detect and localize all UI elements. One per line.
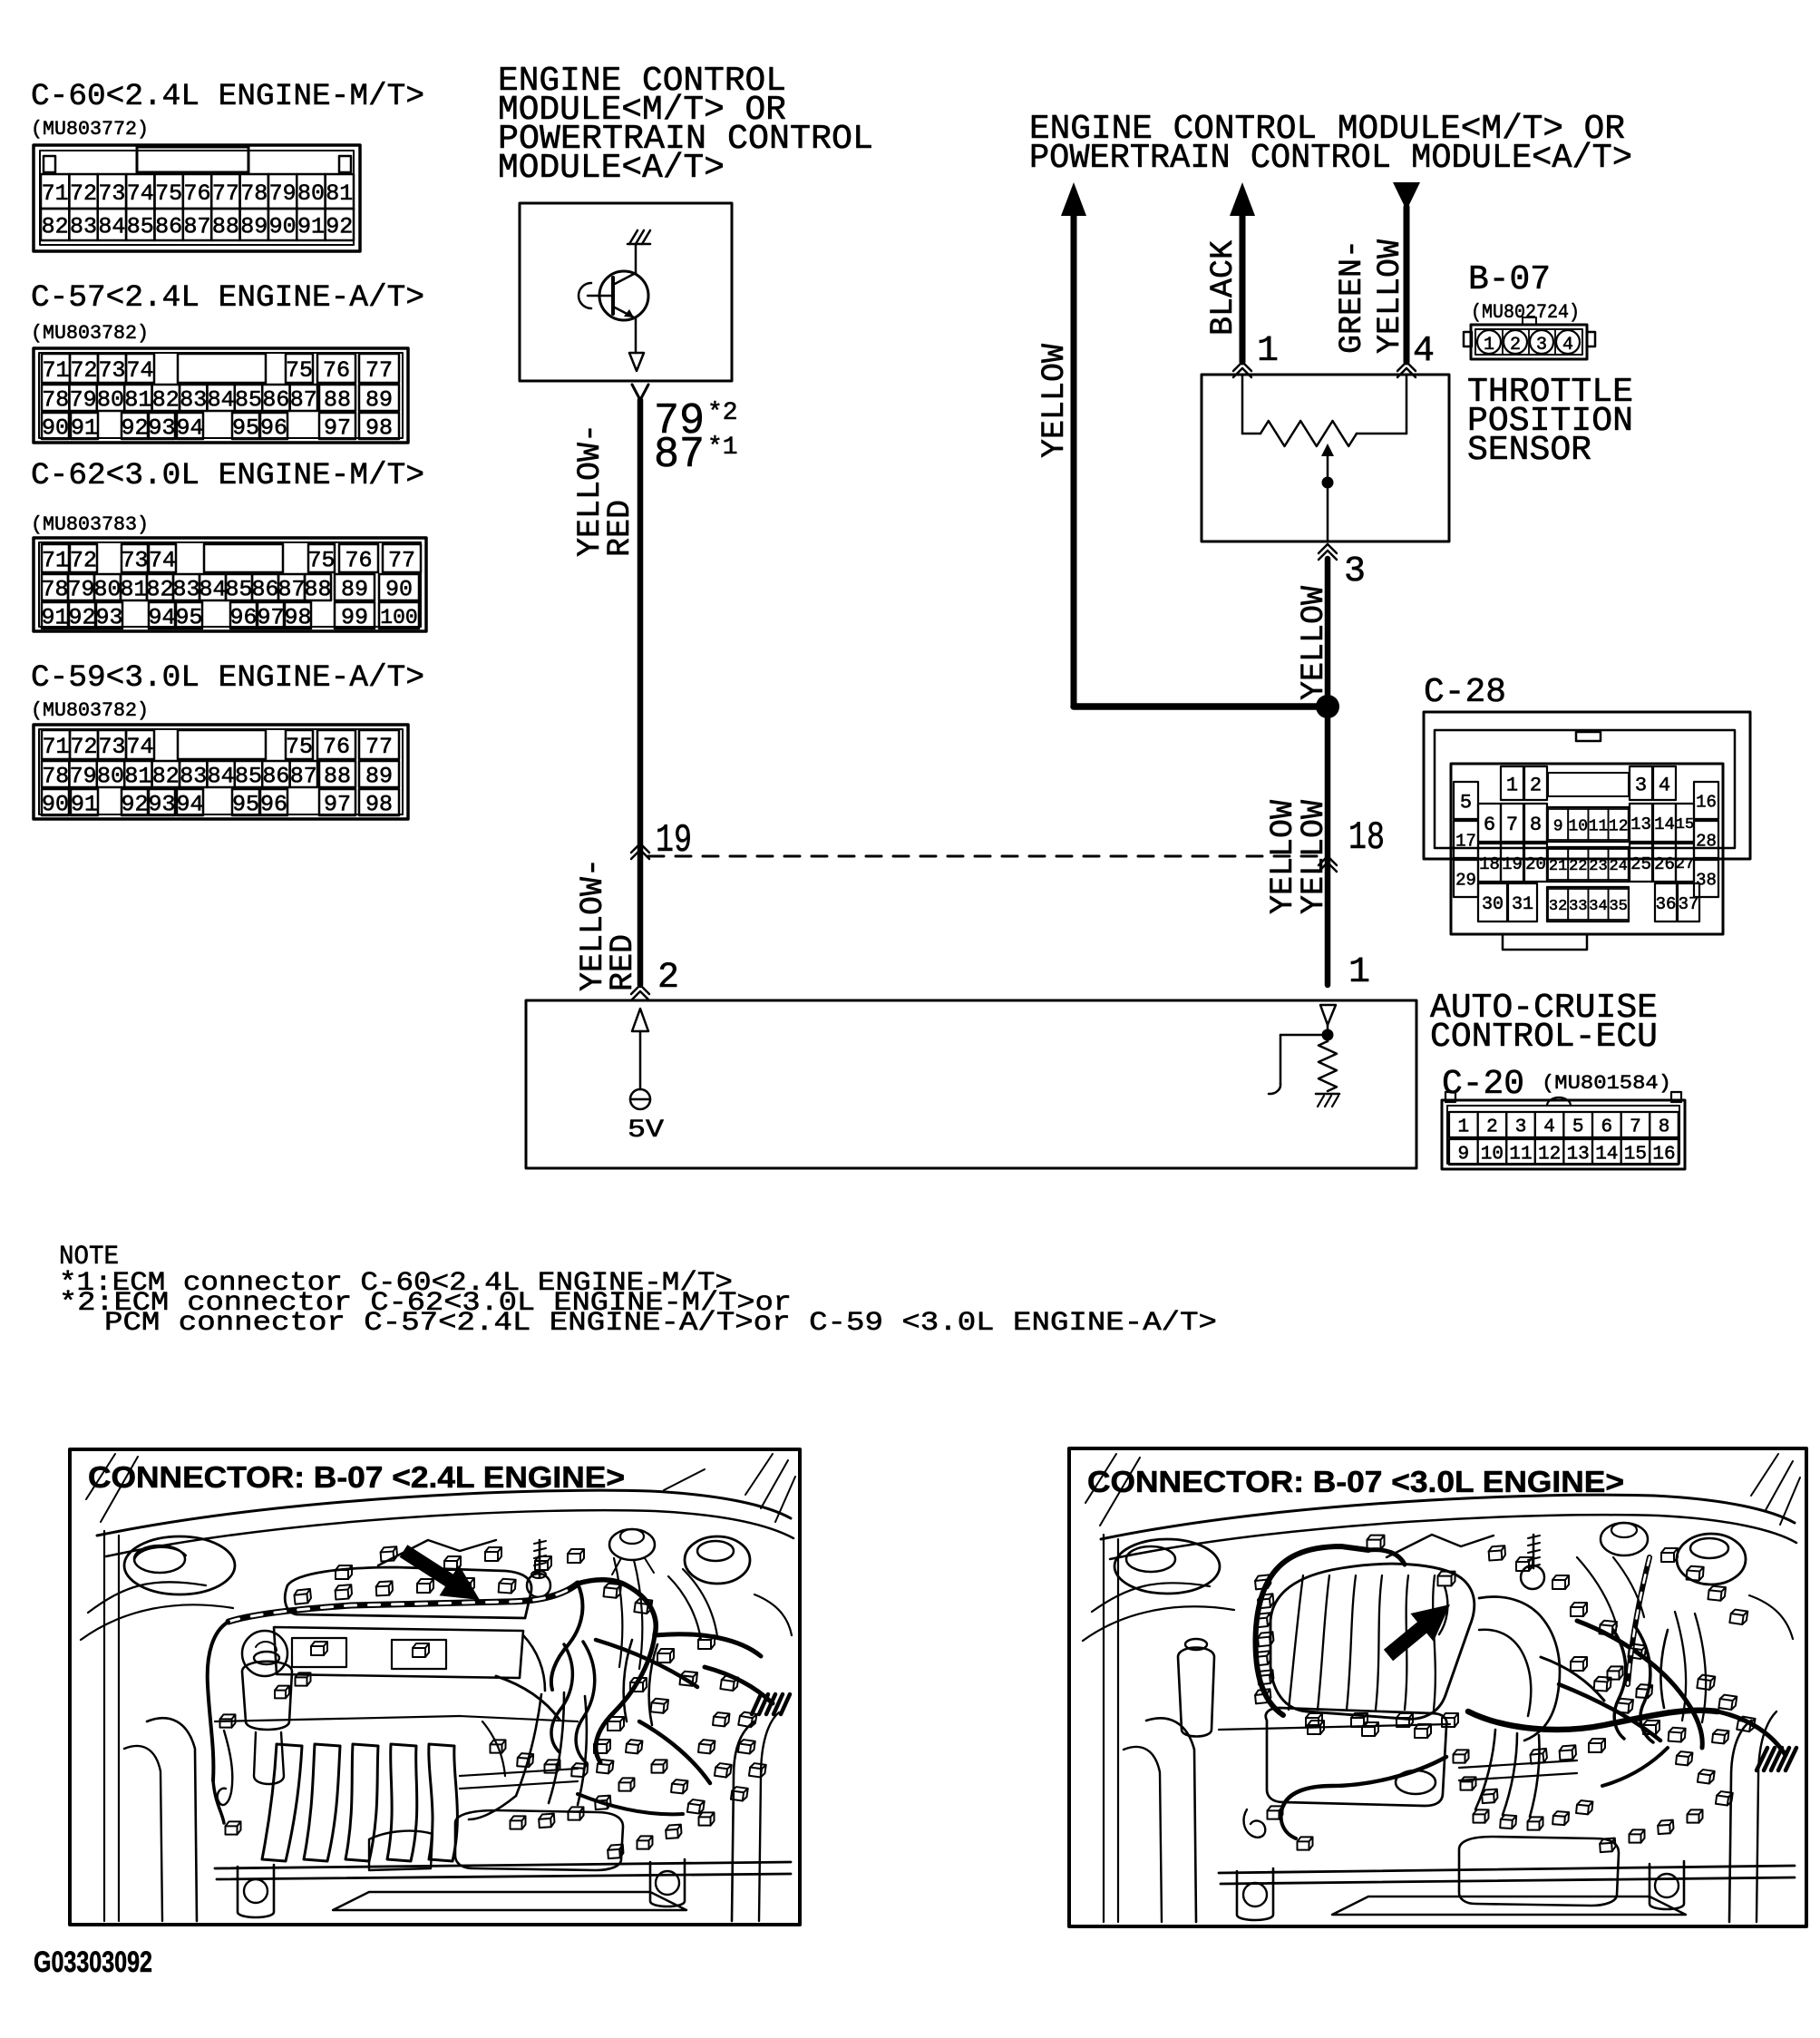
svg-text:5: 5 (1460, 791, 1472, 814)
svg-text:*1: *1 (707, 434, 738, 462)
svg-text:8: 8 (1530, 814, 1542, 836)
svg-text:78: 78 (42, 764, 69, 790)
svg-text:3: 3 (1344, 551, 1366, 592)
svg-text:33: 33 (1569, 898, 1587, 915)
svg-text:82: 82 (152, 764, 180, 790)
svg-text:87: 87 (290, 764, 317, 790)
svg-text:89: 89 (240, 214, 268, 240)
svg-text:2: 2 (1510, 335, 1521, 356)
svg-text:YELLOW: YELLOW (1296, 586, 1332, 700)
svg-text:94: 94 (176, 415, 203, 442)
svg-text:1: 1 (1484, 335, 1494, 356)
svg-text:93: 93 (95, 605, 122, 631)
svg-text:PCM connector C-57<2.4L ENG: PCM connector C-57<2.4L ENGINE-A/T>or C-… (104, 1308, 1217, 1339)
svg-text:84: 84 (199, 577, 226, 603)
svg-text:POWERTRAIN CONTROL MODULE<A/T>: POWERTRAIN CONTROL MODULE<A/T> (1029, 139, 1632, 178)
svg-text:82: 82 (152, 387, 180, 414)
svg-text:(MU803772): (MU803772) (31, 118, 149, 141)
svg-text:26: 26 (1654, 854, 1675, 874)
svg-text:76: 76 (323, 734, 350, 760)
svg-text:98: 98 (365, 792, 393, 818)
svg-text:4: 4 (1562, 335, 1573, 356)
svg-text:88: 88 (212, 214, 239, 240)
svg-text:83: 83 (172, 577, 200, 603)
svg-text:CONNECTOR: B-07 <3.0L ENGINE>: CONNECTOR: B-07 <3.0L ENGINE> (1087, 1465, 1624, 1498)
svg-text:4: 4 (1659, 774, 1670, 796)
svg-text:92: 92 (121, 792, 148, 818)
svg-text:3: 3 (1635, 774, 1647, 796)
svg-text:10: 10 (1481, 1145, 1504, 1165)
svg-text:78: 78 (41, 577, 68, 603)
svg-text:84: 84 (208, 387, 235, 414)
svg-text:22: 22 (1569, 858, 1587, 875)
svg-text:C-59<3.0L ENGINE-A/T>: C-59<3.0L ENGINE-A/T> (31, 660, 424, 696)
svg-text:21: 21 (1549, 858, 1567, 875)
svg-text:73: 73 (121, 548, 148, 574)
svg-text:73: 73 (98, 357, 125, 384)
svg-text:79: 79 (70, 764, 97, 790)
svg-text:10: 10 (1568, 817, 1588, 835)
svg-text:97: 97 (324, 415, 351, 442)
svg-text:72: 72 (70, 548, 97, 574)
svg-text:82: 82 (42, 214, 69, 240)
svg-text:71: 71 (42, 180, 69, 207)
svg-text:86: 86 (155, 214, 182, 240)
svg-text:6: 6 (1484, 814, 1495, 836)
svg-text:77: 77 (388, 548, 415, 574)
svg-text:C-60<2.4L ENGINE-M/T>: C-60<2.4L ENGINE-M/T> (31, 79, 424, 114)
svg-text:(MU803782): (MU803782) (31, 699, 149, 722)
svg-text:72: 72 (70, 357, 97, 384)
svg-text:74: 74 (126, 734, 153, 760)
svg-text:96: 96 (260, 792, 287, 818)
svg-text:11: 11 (1509, 1145, 1532, 1165)
svg-text:C-28: C-28 (1424, 673, 1506, 712)
svg-text:91: 91 (41, 605, 68, 631)
svg-text:2: 2 (1486, 1117, 1498, 1138)
svg-text:B-07: B-07 (1468, 260, 1551, 299)
svg-text:19: 19 (1502, 854, 1523, 874)
svg-text:G03303092: G03303092 (34, 1945, 152, 1978)
svg-text:91: 91 (71, 415, 98, 442)
svg-text:85: 85 (235, 387, 262, 414)
svg-text:YELLOW: YELLOW (1372, 239, 1408, 354)
svg-text:92: 92 (68, 605, 95, 631)
svg-text:25: 25 (1630, 854, 1651, 874)
svg-text:86: 86 (262, 764, 289, 790)
svg-text:87: 87 (277, 577, 305, 603)
svg-text:97: 97 (257, 605, 284, 631)
svg-text:CONTROL-ECU: CONTROL-ECU (1430, 1018, 1658, 1057)
svg-text:RED: RED (602, 500, 638, 557)
svg-text:78: 78 (240, 180, 268, 207)
svg-text:94: 94 (176, 792, 203, 818)
svg-text:36: 36 (1656, 894, 1677, 914)
svg-text:91: 91 (297, 214, 325, 240)
svg-text:87: 87 (654, 431, 705, 480)
svg-text:8: 8 (1659, 1117, 1670, 1138)
svg-text:MODULE<A/T>: MODULE<A/T> (498, 149, 725, 188)
svg-text:15: 15 (1624, 1145, 1647, 1165)
svg-text:12: 12 (1538, 1145, 1561, 1165)
svg-text:27: 27 (1676, 856, 1694, 873)
svg-text:90: 90 (385, 577, 413, 603)
svg-text:85: 85 (225, 577, 252, 603)
svg-text:75: 75 (307, 548, 335, 574)
svg-text:96: 96 (229, 605, 257, 631)
svg-text:79: 79 (67, 577, 94, 603)
svg-text:23: 23 (1589, 858, 1607, 875)
svg-text:72: 72 (70, 180, 97, 207)
svg-text:1: 1 (1506, 774, 1518, 796)
svg-text:4: 4 (1543, 1117, 1555, 1138)
svg-text:*2: *2 (707, 399, 738, 427)
svg-text:18: 18 (1479, 854, 1500, 874)
svg-text:73: 73 (98, 734, 125, 760)
svg-text:92: 92 (121, 415, 148, 442)
svg-text:15: 15 (1676, 816, 1694, 834)
svg-text:80: 80 (297, 180, 325, 207)
svg-text:76: 76 (323, 357, 350, 384)
svg-text:7: 7 (1630, 1117, 1641, 1138)
svg-text:13: 13 (1567, 1145, 1590, 1165)
svg-text:98: 98 (284, 605, 311, 631)
svg-text:79: 79 (269, 180, 297, 207)
svg-text:77: 77 (365, 357, 393, 384)
svg-text:87: 87 (183, 214, 210, 240)
svg-text:YELLOW: YELLOW (1037, 344, 1073, 458)
svg-text:74: 74 (127, 180, 154, 207)
svg-text:98: 98 (365, 415, 393, 442)
svg-text:1: 1 (1457, 1117, 1469, 1138)
svg-text:7: 7 (1506, 814, 1518, 836)
svg-text:1: 1 (1348, 952, 1370, 993)
svg-text:28: 28 (1696, 831, 1717, 851)
svg-text:14: 14 (1654, 814, 1675, 834)
svg-text:18: 18 (1348, 815, 1385, 861)
svg-text:2: 2 (657, 958, 679, 999)
svg-text:75: 75 (286, 357, 313, 384)
svg-text:(MU803782): (MU803782) (31, 322, 149, 345)
svg-text:CONNECTOR: B-07 <2.4L ENGINE>: CONNECTOR: B-07 <2.4L ENGINE> (88, 1460, 625, 1494)
svg-text:29: 29 (1455, 870, 1476, 890)
svg-text:81: 81 (124, 387, 151, 414)
svg-text:77: 77 (212, 180, 239, 207)
svg-text:78: 78 (42, 387, 69, 414)
svg-text:80: 80 (93, 577, 121, 603)
svg-text:94: 94 (148, 605, 175, 631)
svg-text:71: 71 (42, 357, 69, 384)
svg-text:71: 71 (42, 548, 69, 574)
svg-text:75: 75 (155, 180, 182, 207)
svg-text:SENSOR: SENSOR (1467, 431, 1591, 470)
svg-text:93: 93 (148, 792, 175, 818)
svg-text:5V: 5V (628, 1117, 664, 1145)
svg-text:74: 74 (126, 357, 153, 384)
svg-text:(MU801584): (MU801584) (1542, 1072, 1671, 1095)
svg-text:85: 85 (127, 214, 154, 240)
svg-text:92: 92 (326, 214, 353, 240)
svg-text:83: 83 (70, 214, 97, 240)
svg-text:81: 81 (326, 180, 353, 207)
svg-text:80: 80 (97, 764, 124, 790)
svg-text:89: 89 (341, 577, 368, 603)
svg-text:(MU803783): (MU803783) (31, 513, 149, 536)
svg-text:24: 24 (1609, 858, 1627, 875)
svg-text:20: 20 (1525, 854, 1546, 874)
svg-text:16: 16 (1652, 1145, 1675, 1165)
svg-text:88: 88 (324, 764, 351, 790)
svg-text:76: 76 (345, 548, 372, 574)
svg-text:GREEN-: GREEN- (1334, 239, 1370, 354)
svg-text:73: 73 (98, 180, 125, 207)
svg-text:32: 32 (1549, 898, 1567, 915)
svg-text:79: 79 (70, 387, 97, 414)
svg-text:75: 75 (286, 734, 313, 760)
svg-text:1: 1 (1257, 331, 1279, 372)
svg-text:12: 12 (1609, 817, 1629, 835)
svg-text:RED: RED (605, 934, 641, 991)
svg-text:85: 85 (235, 764, 262, 790)
svg-text:BLACK: BLACK (1205, 240, 1241, 336)
svg-text:9: 9 (1457, 1145, 1469, 1165)
svg-text:95: 95 (232, 792, 259, 818)
svg-text:83: 83 (180, 387, 207, 414)
svg-text:9: 9 (1553, 817, 1563, 835)
svg-text:74: 74 (149, 548, 176, 574)
svg-text:82: 82 (146, 577, 173, 603)
svg-text:91: 91 (71, 792, 98, 818)
svg-text:11: 11 (1589, 817, 1609, 835)
svg-text:86: 86 (251, 577, 278, 603)
svg-text:4: 4 (1413, 331, 1435, 372)
svg-text:80: 80 (97, 387, 124, 414)
svg-text:72: 72 (70, 734, 97, 760)
svg-text:16: 16 (1696, 792, 1717, 812)
svg-text:84: 84 (208, 764, 235, 790)
svg-text:84: 84 (98, 214, 125, 240)
svg-text:13: 13 (1630, 814, 1651, 834)
svg-text:95: 95 (232, 415, 259, 442)
svg-text:90: 90 (42, 415, 69, 442)
svg-text:99: 99 (341, 605, 368, 631)
svg-text:71: 71 (42, 734, 69, 760)
svg-text:2: 2 (1530, 774, 1542, 796)
svg-text:34: 34 (1589, 898, 1607, 915)
svg-text:76: 76 (183, 180, 210, 207)
svg-text:C-20: C-20 (1442, 1065, 1524, 1104)
svg-text:3: 3 (1536, 335, 1547, 356)
svg-text:93: 93 (148, 415, 175, 442)
svg-text:83: 83 (180, 764, 207, 790)
svg-text:89: 89 (365, 764, 393, 790)
svg-text:17: 17 (1455, 831, 1476, 851)
svg-text:86: 86 (262, 387, 289, 414)
svg-text:5: 5 (1572, 1117, 1584, 1138)
svg-text:C-57<2.4L ENGINE-A/T>: C-57<2.4L ENGINE-A/T> (31, 280, 424, 316)
svg-text:31: 31 (1512, 894, 1533, 915)
svg-text:96: 96 (260, 415, 287, 442)
svg-text:88: 88 (324, 387, 351, 414)
svg-text:97: 97 (324, 792, 351, 818)
svg-text:88: 88 (304, 577, 331, 603)
svg-text:30: 30 (1482, 894, 1504, 915)
svg-text:77: 77 (365, 734, 393, 760)
svg-text:90: 90 (269, 214, 297, 240)
svg-text:6: 6 (1601, 1117, 1612, 1138)
svg-text:C-62<3.0L ENGINE-M/T>: C-62<3.0L ENGINE-M/T> (31, 458, 424, 493)
svg-text:89: 89 (365, 387, 393, 414)
svg-text:81: 81 (120, 577, 147, 603)
svg-text:100: 100 (380, 606, 417, 629)
svg-text:3: 3 (1515, 1117, 1527, 1138)
svg-text:95: 95 (175, 605, 202, 631)
svg-text:35: 35 (1609, 898, 1627, 915)
svg-text:37: 37 (1679, 894, 1699, 914)
svg-text:87: 87 (290, 387, 317, 414)
svg-text:(MU802724): (MU802724) (1471, 301, 1580, 324)
svg-text:14: 14 (1595, 1145, 1618, 1165)
svg-text:90: 90 (42, 792, 69, 818)
svg-text:81: 81 (124, 764, 151, 790)
